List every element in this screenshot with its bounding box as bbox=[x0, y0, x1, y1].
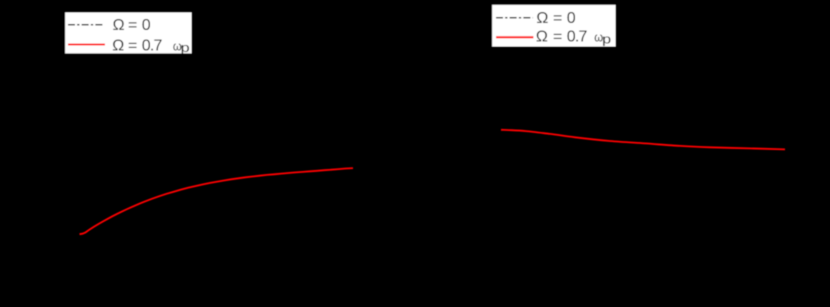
svg-text:Ω: Ω bbox=[536, 29, 548, 46]
svg-text:Ω: Ω bbox=[536, 10, 548, 27]
svg-text:p: p bbox=[181, 41, 190, 55]
svg-text:0: 0 bbox=[567, 10, 576, 27]
svg-text:0.7: 0.7 bbox=[142, 37, 163, 54]
svg-text:=: = bbox=[128, 37, 137, 54]
svg-text:=: = bbox=[553, 29, 562, 46]
svg-text:p: p bbox=[602, 32, 611, 46]
svg-text:=: = bbox=[553, 10, 562, 27]
svg-text:0.7: 0.7 bbox=[567, 29, 588, 46]
svg-text:Ω: Ω bbox=[112, 37, 124, 54]
svg-text:=: = bbox=[128, 17, 137, 34]
svg-text:Ω: Ω bbox=[113, 17, 125, 34]
svg-text:0: 0 bbox=[142, 17, 151, 34]
